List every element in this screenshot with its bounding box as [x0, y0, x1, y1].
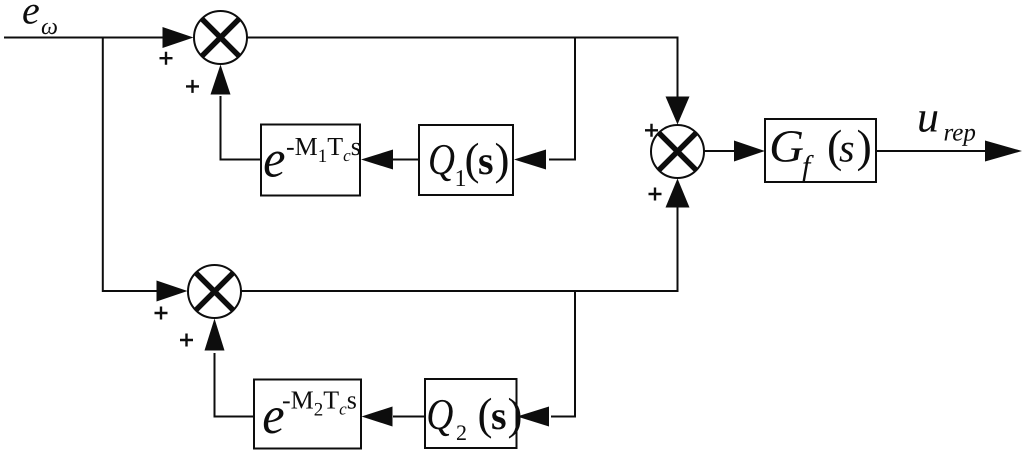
svg-text:rep: rep [944, 120, 976, 147]
svg-text:Q: Q [428, 135, 455, 184]
plus sign S3 left [155, 307, 168, 320]
wire Gf output [877, 150, 988, 152]
arrowhead into S2 top [666, 97, 690, 125]
wire input e_w [4, 37, 163, 39]
summing junction S1 circle [194, 11, 247, 64]
block Gf box [765, 119, 876, 182]
arrowhead into delay2 right (bottom row) [362, 407, 393, 427]
summing junction S3 circle [188, 265, 241, 318]
svg-text:u: u [917, 93, 939, 142]
wire branch down to Q2 input [551, 292, 575, 417]
wire Q1 to delay1 [392, 159, 420, 161]
summing junction S2 circle [651, 125, 704, 178]
svg-text:Q: Q [426, 390, 453, 439]
svg-text:(s): (s) [478, 389, 523, 439]
svg-text:e: e [22, 0, 40, 33]
block Q2 box [425, 379, 517, 448]
wire sum2 output to Gf [704, 150, 737, 152]
svg-text:e: e [263, 131, 285, 189]
arrowhead into delay1 right (top row) [361, 150, 393, 170]
arrowhead into Gf left [734, 141, 765, 162]
plus sign S2 top [645, 124, 658, 137]
plus sign S1 bottom [186, 80, 199, 93]
wire branch vertical from input to lower sum [103, 37, 158, 292]
wire delay1 output up to sum1 [221, 96, 262, 160]
plus sign S3 bottom [180, 334, 193, 347]
arrowhead into S2 bottom [666, 179, 690, 208]
plus sign S2 bottom [649, 188, 662, 201]
wire branch down to Q1 input [549, 37, 575, 160]
arrowhead into S1 left [163, 27, 194, 48]
svg-text:G: G [769, 121, 804, 172]
arrowhead into Q2 right [517, 407, 549, 427]
svg-text:2: 2 [456, 420, 467, 445]
block Q1 box [419, 125, 513, 195]
arrowhead into S1 bottom [211, 65, 231, 95]
svg-text:(s): (s) [465, 134, 510, 184]
svg-text:ω: ω [41, 14, 58, 40]
block delay2 e^-M2Tcs box [254, 380, 361, 449]
arrowhead into S3 bottom [205, 319, 225, 351]
arrowhead into S3 left [157, 281, 188, 302]
wire sum3 output to right corner up to sum2 [241, 206, 678, 291]
svg-text:(s): (s) [827, 121, 872, 172]
wire Q2 to delay2 [393, 416, 425, 418]
arrowhead into Q1 right [514, 150, 546, 170]
arrowhead output final [985, 141, 1022, 162]
block delay1 e^-M1Tcs box [261, 125, 360, 196]
wire delay2 output up to sum3 [215, 353, 255, 417]
plus sign S1 left [160, 52, 173, 65]
wire sum1 output to right corner down [247, 38, 678, 99]
